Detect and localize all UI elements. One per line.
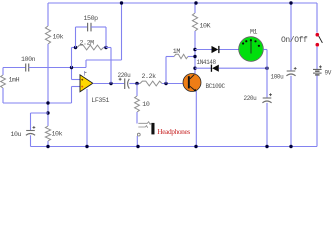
wire	[76, 26, 88, 28]
wire	[31, 112, 49, 114]
node rail junction	[120, 1, 123, 4]
wire	[316, 47, 318, 69]
node 2.2M right	[104, 46, 107, 49]
node gnd junction	[85, 145, 88, 148]
wire	[2, 68, 4, 76]
wire	[104, 47, 107, 49]
wire	[71, 48, 73, 68]
wire	[266, 103, 268, 147]
wire	[290, 3, 292, 70]
wire	[165, 57, 167, 84]
wire	[136, 136, 138, 147]
wire	[195, 67, 211, 69]
svg-text:10K: 10K	[200, 23, 211, 30]
wire	[194, 31, 196, 74]
svg-text:M1: M1	[250, 29, 258, 36]
svg-text:2.2M: 2.2M	[80, 40, 95, 47]
node rail junction	[289, 1, 292, 4]
op-amp U1 LF351	[80, 71, 93, 147]
wire	[121, 3, 123, 60]
capacitor C2 10u	[26, 130, 35, 132]
inductor L1 1mH	[1, 75, 6, 88]
svg-text:220u: 220u	[244, 95, 258, 102]
wire	[29, 67, 86, 69]
wire	[162, 83, 188, 85]
svg-text:100n: 100n	[21, 56, 36, 63]
svg-text:150p: 150p	[84, 15, 99, 22]
svg-text:10u: 10u	[11, 131, 22, 138]
svg-text:10k: 10k	[53, 34, 64, 41]
wire	[136, 84, 138, 97]
capacitor C6 100u	[287, 70, 296, 72]
wire to -input	[72, 86, 81, 88]
node output	[109, 82, 112, 85]
svg-text:10: 10	[142, 101, 150, 108]
node 1M right	[193, 55, 196, 58]
node divider mid / junction	[46, 101, 49, 104]
wire	[136, 112, 138, 124]
capacitor C5 220u	[263, 97, 272, 99]
node gnd junction	[46, 145, 49, 148]
wire	[129, 83, 140, 85]
wire	[106, 47, 111, 49]
wire V+ top rail	[48, 2, 317, 4]
wire	[91, 26, 106, 28]
node base/1M junction	[164, 82, 167, 85]
wire emitter to rail	[195, 91, 197, 147]
battery B1 9V	[313, 69, 322, 75]
wire	[30, 113, 32, 130]
wire	[71, 87, 73, 104]
wire	[75, 27, 77, 48]
meter M1	[239, 37, 264, 62]
wire	[105, 27, 107, 48]
wire	[47, 44, 49, 126]
wire	[47, 141, 49, 147]
node gnd junction	[194, 145, 197, 148]
wire	[195, 49, 212, 51]
svg-text:1M: 1M	[173, 48, 181, 55]
wire	[188, 56, 195, 58]
svg-text:1N4148: 1N4148	[197, 59, 217, 66]
wire	[290, 76, 292, 147]
wire	[85, 60, 87, 68]
wire 0V bottom rail	[31, 146, 318, 148]
svg-text:10k: 10k	[52, 131, 63, 138]
resistor R4 2.2k	[140, 81, 162, 86]
transistor Q1 BC109C	[183, 74, 201, 92]
resistor R7 10K collector load	[192, 13, 197, 31]
wire	[266, 50, 268, 98]
svg-text:220u: 220u	[118, 72, 132, 79]
wire	[194, 3, 196, 13]
wire	[72, 47, 77, 49]
node diode D1	[193, 48, 196, 51]
node gnd junction	[136, 145, 139, 148]
wire to +input	[72, 79, 81, 81]
svg-text:BC109C: BC109C	[206, 83, 226, 90]
wire	[110, 48, 112, 84]
node headphone tap	[135, 82, 138, 85]
node 10u junction	[46, 111, 49, 114]
resistor R1 10k (upper bias)	[45, 26, 50, 44]
wire	[263, 49, 267, 51]
capacitor C3 150p	[87, 23, 89, 32]
wire	[71, 68, 73, 80]
node diode D2	[193, 67, 196, 70]
resistor R6 10 ohm	[135, 96, 140, 112]
svg-text:On/Off: On/Off	[281, 36, 308, 45]
resistor R3 2.2M	[77, 45, 104, 50]
wire	[316, 76, 318, 147]
svg-text:1mH: 1mH	[9, 77, 20, 84]
node rail junction	[194, 1, 197, 4]
node A input	[70, 66, 73, 69]
node gnd junction	[265, 145, 268, 148]
wire	[86, 59, 122, 61]
resistor R2 10k (lower bias)	[45, 126, 50, 141]
wire	[47, 3, 49, 26]
svg-text:LF351: LF351	[91, 97, 109, 104]
node gnd junction	[289, 145, 292, 148]
wire	[2, 88, 4, 103]
wire	[220, 49, 239, 51]
svg-text:Headphones: Headphones	[157, 127, 190, 136]
wire	[166, 56, 174, 58]
wire	[3, 102, 72, 104]
capacitor C1 100n	[25, 64, 27, 72]
diode D1 1N4148	[212, 46, 219, 53]
wire	[3, 67, 26, 69]
headphone jack J1	[137, 122, 154, 136]
wire	[316, 3, 318, 33]
svg-text:2.2k: 2.2k	[142, 73, 157, 80]
switch S1 On/Off	[316, 33, 323, 47]
resistor R5 1M	[174, 54, 188, 58]
diode D2 1N4148	[212, 65, 219, 72]
wire	[219, 67, 267, 69]
capacitor C4 220u coupling	[124, 78, 126, 89]
node 2.2M left	[74, 46, 77, 49]
wire op-amp output	[93, 83, 125, 85]
svg-text:9V: 9V	[325, 69, 332, 76]
svg-text:100u: 100u	[271, 74, 285, 81]
node meter return	[265, 67, 268, 70]
wire	[30, 135, 32, 146]
